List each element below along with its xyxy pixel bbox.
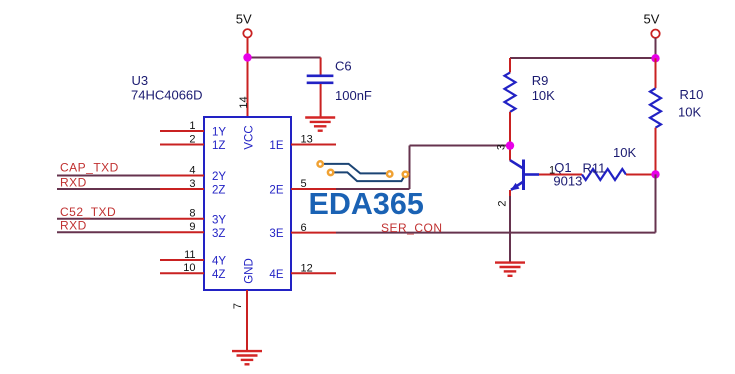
svg-text:U3: U3 [132, 73, 149, 88]
transistor Q1 emitter arrowhead [510, 183, 519, 191]
wire net RXD to pin 9 [57, 231, 160, 233]
resistor R9 top lead [509, 58, 511, 73]
svg-text:8: 8 [189, 208, 195, 220]
pin 8 stub [160, 218, 204, 220]
svg-text:C52_TXD: C52_TXD [60, 205, 116, 219]
resistor R10 [650, 88, 661, 127]
wire pin14 VCC vertical [247, 58, 249, 118]
pin 12 stub [291, 272, 336, 274]
svg-text:2: 2 [497, 200, 509, 206]
wire vertical riser x=409.5 [409, 146, 411, 190]
svg-text:RXD: RXD [60, 219, 87, 233]
pin 11 stub [160, 259, 204, 261]
wire Q1 base to R11 [539, 174, 582, 176]
svg-text:EDA365: EDA365 [309, 187, 424, 221]
pin 1 stub [160, 130, 204, 132]
junction at 5V left [243, 53, 251, 61]
power 5V (right) symbol [651, 30, 659, 38]
wire Q1 emitter to ground [509, 190, 511, 197]
svg-text:10K: 10K [532, 88, 555, 103]
svg-text:1: 1 [189, 120, 195, 132]
wire Q1 collector junction to transistor [509, 146, 511, 161]
pin 5 stub [291, 188, 336, 190]
svg-text:4E: 4E [269, 269, 283, 281]
svg-text:1E: 1E [269, 140, 283, 152]
capacitor C6 bottom lead [320, 84, 322, 118]
pin 2 stub [160, 144, 204, 146]
resistor R9 bottom lead [509, 112, 511, 146]
wire 5V-left lead down to junction [247, 38, 249, 58]
svg-text:R9: R9 [532, 73, 549, 88]
svg-text:10K: 10K [678, 105, 701, 120]
wire pin5 2E horizontal [336, 188, 410, 190]
wire junction to C6 (horizontal) [248, 57, 321, 59]
logo pad 4 [403, 172, 408, 177]
wire SER_CON from pin6 to right column [336, 232, 656, 234]
transistor Q1 base lead [524, 173, 540, 176]
svg-text:SER_CON: SER_CON [381, 221, 443, 235]
capacitor C6 top lead [320, 58, 322, 76]
svg-text:10: 10 [183, 262, 195, 274]
wire R9-top to 5V junction [510, 57, 656, 59]
transistor Q1 base bar [522, 160, 525, 191]
logo pad 1 [318, 161, 323, 166]
svg-text:5V: 5V [644, 12, 660, 27]
svg-text:2Y: 2Y [212, 171, 226, 183]
svg-text:R10: R10 [680, 87, 704, 102]
svg-text:3E: 3E [269, 228, 283, 240]
resistor R10 top lead [655, 58, 657, 88]
wire R10/R11 node down to SER_CON [655, 174, 657, 232]
svg-text:100nF: 100nF [335, 88, 372, 103]
svg-text:12: 12 [301, 263, 313, 275]
svg-text:3: 3 [189, 178, 195, 190]
wire net RXD to pin 3 [57, 188, 160, 190]
svg-text:74HC4066D: 74HC4066D [131, 88, 203, 103]
svg-text:4Y: 4Y [212, 256, 226, 268]
resistor R11 [582, 169, 626, 180]
ground (Q1 emitter) [495, 261, 525, 263]
power 5V (left) symbol [243, 29, 251, 37]
svg-text:7: 7 [232, 303, 244, 309]
pin 13 stub [291, 144, 336, 146]
svg-text:6: 6 [301, 222, 307, 234]
svg-text:1Z: 1Z [212, 140, 225, 152]
wire to Q1 collector junction [410, 145, 511, 147]
resistor R10 bottom lead [655, 128, 657, 175]
svg-text:10K: 10K [613, 145, 636, 160]
svg-text:9: 9 [189, 221, 195, 233]
svg-text:CAP_TXD: CAP_TXD [60, 161, 119, 175]
wire net C52_TXD to pin 8 [57, 218, 160, 220]
pin 9 stub [160, 231, 204, 233]
svg-text:14: 14 [238, 96, 250, 108]
svg-text:13: 13 [301, 134, 313, 146]
junction R10/R11 [651, 170, 659, 178]
wire pin7 GND vertical [246, 290, 248, 351]
svg-text:5V: 5V [236, 12, 252, 27]
svg-text:RXD: RXD [60, 176, 87, 190]
logo pcb trace B [332, 172, 405, 181]
logo pad 2 [328, 170, 333, 175]
pin 10 stub [160, 272, 204, 274]
svg-text:4: 4 [189, 164, 195, 176]
resistor R11 right lead [626, 174, 656, 176]
svg-text:5: 5 [301, 178, 307, 190]
resistor R9 [505, 73, 516, 112]
svg-text:2E: 2E [269, 185, 283, 197]
op-amp/IC U3 74HC4066D body [204, 117, 291, 290]
pin 4 stub [160, 175, 204, 177]
junction Q1 collector node [506, 141, 514, 149]
svg-text:GND: GND [244, 258, 256, 284]
wire 5V-right lead down [655, 38, 657, 59]
pin 3 stub [160, 188, 204, 190]
svg-text:2Z: 2Z [212, 185, 225, 197]
svg-text:11: 11 [184, 249, 195, 261]
svg-text:2: 2 [189, 133, 195, 145]
wire net CAP_TXD to pin 4 [57, 175, 160, 177]
junction at 5V right [651, 54, 659, 62]
svg-text:C6: C6 [335, 59, 352, 74]
svg-text:3Z: 3Z [212, 228, 225, 240]
svg-text:1Y: 1Y [212, 127, 226, 139]
svg-text:9013: 9013 [553, 174, 582, 189]
ground (U3 GND) [232, 350, 262, 352]
svg-text:4Z: 4Z [212, 269, 225, 281]
svg-text:3: 3 [496, 144, 508, 150]
logo pad 3 [387, 171, 392, 176]
transistor Q1 collector stroke [510, 160, 524, 168]
pin 6 stub [291, 232, 336, 234]
svg-text:3Y: 3Y [212, 214, 226, 226]
transistor Q1 emitter stroke [511, 182, 524, 190]
svg-text:R11: R11 [583, 160, 606, 175]
logo pcb trace A [321, 164, 387, 174]
svg-text:VCC: VCC [244, 125, 256, 149]
ground (C6) [305, 116, 335, 118]
capacitor C6 plates [307, 75, 334, 78]
